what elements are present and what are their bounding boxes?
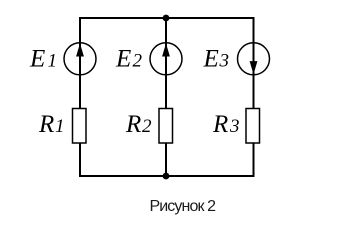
node top junction [163,15,170,22]
svg-text:E: E [29,46,45,73]
caption: Рисунок 2 [150,198,217,215]
wire branch 1 (left vertical) [79,17,81,177]
source E3 [238,43,270,75]
resistor R1 [73,109,87,144]
wire branch 2 (middle vertical) [165,17,167,177]
svg-text:E: E [203,46,219,73]
wire bottom bus [79,175,255,177]
label E1 [29,46,57,73]
svg-text:2: 2 [142,116,152,137]
svg-text:1: 1 [55,116,65,137]
label E2 [115,46,143,73]
wire top bus [79,17,255,19]
resistor R2 [159,109,173,144]
svg-text:R: R [212,111,228,138]
source E2 [150,43,182,75]
svg-text:3: 3 [219,51,230,72]
label R1 [38,111,65,138]
svg-text:R: R [125,111,141,138]
wire branch 3 (right vertical) [253,17,255,177]
svg-text:Рисунок 2: Рисунок 2 [150,198,217,215]
svg-text:2: 2 [133,51,143,72]
node bottom junction [163,173,170,180]
resistor R3 [246,109,260,144]
label R3 [212,111,240,138]
svg-text:3: 3 [229,116,240,137]
svg-text:1: 1 [48,51,58,72]
label E3 [203,46,230,73]
source E1 [64,43,96,75]
svg-text:E: E [115,46,131,73]
svg-text:R: R [38,111,54,138]
label R2 [125,111,152,138]
